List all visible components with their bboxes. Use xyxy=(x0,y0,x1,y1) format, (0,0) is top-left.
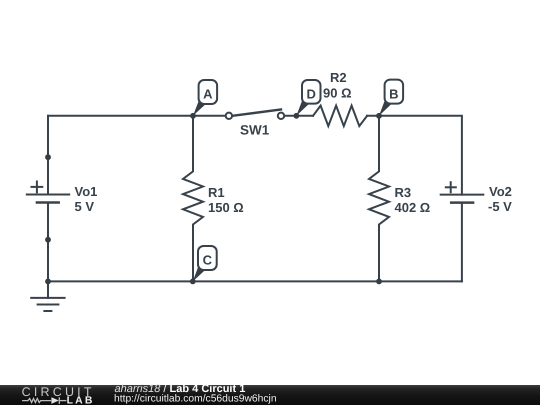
battery Vo2 xyxy=(441,182,484,202)
junction left lower xyxy=(45,237,51,243)
node A junction xyxy=(190,113,196,119)
switch SW1 lever xyxy=(233,110,282,116)
junction ground xyxy=(45,279,51,285)
node A flag xyxy=(193,80,217,116)
resistor R1 xyxy=(183,116,203,282)
switch SW1 left contact xyxy=(226,113,232,119)
junction left upper xyxy=(45,154,51,160)
wire top-left horizontal xyxy=(48,115,225,117)
node C flag xyxy=(193,246,217,281)
switch SW1 right contact xyxy=(278,113,284,119)
node C junction xyxy=(190,279,196,285)
resistor R2 xyxy=(313,106,367,127)
node B junction xyxy=(376,113,382,119)
node D junction xyxy=(294,113,300,119)
wire bottom horizontal xyxy=(48,280,462,282)
svg-text:http://circuitlab.com/c56dus9w: http://circuitlab.com/c56dus9w6hcjn xyxy=(114,394,277,405)
svg-text:LAB: LAB xyxy=(67,396,95,405)
node B flag xyxy=(379,80,403,116)
wire left vertical upper xyxy=(47,116,49,195)
footer bar xyxy=(0,385,540,405)
wire switch to node D xyxy=(285,115,313,117)
ground xyxy=(31,281,64,311)
wire left vertical lower xyxy=(47,203,49,282)
CircuitLab logo xyxy=(22,385,95,405)
wire R2 to top-right corner xyxy=(367,116,462,195)
node D flag xyxy=(296,80,320,116)
junction R3 bottom xyxy=(376,279,382,285)
wire Vo2 bottom xyxy=(461,203,463,282)
resistor R3 xyxy=(369,116,389,282)
battery Vo1 xyxy=(27,182,69,203)
